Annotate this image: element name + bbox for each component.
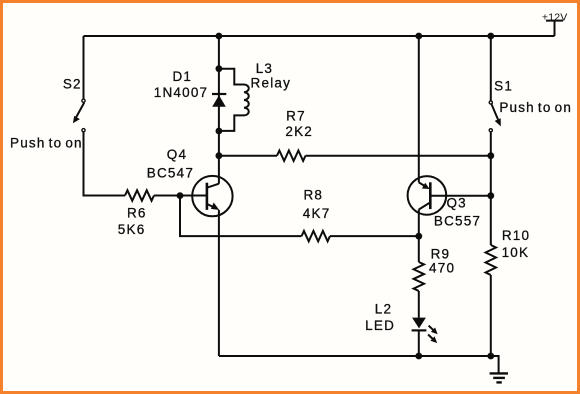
svg-text:L3: L3 xyxy=(256,61,273,76)
svg-text:S2: S2 xyxy=(63,76,82,91)
node: R7 left junction on Q4 collector line xyxy=(216,152,223,159)
wire: S1 lower lead down to R10 xyxy=(490,132,492,245)
wire: R10 bottom lead xyxy=(490,275,492,356)
wire: Q3 collector to R9 node xyxy=(418,210,420,237)
ground xyxy=(490,356,508,382)
wire: R7 right lead to S1 branch xyxy=(306,155,491,157)
resistor R6 xyxy=(125,190,154,200)
svg-text:L2: L2 xyxy=(375,301,392,316)
svg-text:S1: S1 xyxy=(494,79,513,94)
resistor R8 xyxy=(302,231,330,241)
wire: R7 left lead xyxy=(219,155,277,157)
inductor L3 relay coil xyxy=(219,69,249,131)
wire: main vertical from top rail through D1 to Q4 collector xyxy=(218,36,220,184)
wire: R9 top lead xyxy=(418,236,420,262)
svg-text:10K: 10K xyxy=(502,245,530,260)
wire: R6 to Q4 base xyxy=(154,195,206,197)
LED L2 xyxy=(412,318,438,344)
svg-text:4K7: 4K7 xyxy=(303,206,331,221)
wire: S2 lower lead down to R6 row xyxy=(84,132,126,195)
node: R7 / S1 junction xyxy=(487,152,494,159)
wire: bottom rail xyxy=(219,355,491,357)
node: Q3 base / R10 junction xyxy=(487,192,494,199)
svg-text:BC547: BC547 xyxy=(147,166,194,181)
wire: Q3 emitter from top rail xyxy=(418,36,420,182)
svg-text:R9: R9 xyxy=(431,247,451,262)
svg-text:5K6: 5K6 xyxy=(118,222,146,237)
svg-text:1N4007: 1N4007 xyxy=(154,85,209,100)
node: top rail / D1 branch junction xyxy=(216,33,223,40)
wire: base node down and across to R8 xyxy=(180,196,302,237)
wire: R9 to LED xyxy=(418,291,420,318)
node: R10 / ground junction xyxy=(487,353,494,360)
svg-text:Push to on: Push to on xyxy=(499,100,572,115)
node: Q3 collector / R8 / R9 junction xyxy=(415,233,422,240)
wire: S1 upper lead xyxy=(490,36,492,101)
wire: +12V top rail xyxy=(84,35,555,37)
switch S2 xyxy=(73,99,85,132)
svg-text:Push to on: Push to on xyxy=(10,136,83,151)
svg-text:2K2: 2K2 xyxy=(285,124,313,139)
svg-text:D1: D1 xyxy=(172,69,192,84)
svg-text:Relay: Relay xyxy=(251,76,292,91)
node: Q4 base / R8 branch junction xyxy=(177,192,184,199)
wire: S2 upper lead xyxy=(83,36,85,99)
transistor Q3 BC557 xyxy=(408,176,447,215)
node: top rail / Q3 emitter branch junction xyxy=(415,33,422,40)
node: D1/L3 bottom junction xyxy=(216,128,223,135)
power +12V xyxy=(546,21,563,36)
svg-text:LED: LED xyxy=(365,318,395,333)
svg-text:Q3: Q3 xyxy=(446,196,466,211)
wire: LED to bottom rail xyxy=(418,330,420,356)
wire: Q3 base to S1 branch xyxy=(430,195,491,197)
svg-text:R6: R6 xyxy=(127,206,147,221)
svg-text:+12V: +12V xyxy=(542,11,568,23)
wire: Q4 emitter down to bottom rail xyxy=(218,210,220,356)
transistor Q4 BC547 xyxy=(192,176,232,216)
node: D1/L3 top junction xyxy=(216,65,223,72)
diode D1 1N4007 xyxy=(212,94,226,107)
svg-text:470: 470 xyxy=(429,261,455,276)
resistor R7 xyxy=(277,151,306,161)
node: LED / bottom rail junction xyxy=(415,353,422,360)
switch S1 xyxy=(489,101,501,132)
wire: R8 to Q3 collector node xyxy=(330,235,419,237)
svg-text:Q4: Q4 xyxy=(167,147,187,162)
resistor R9 xyxy=(414,262,424,291)
resistor R10 xyxy=(486,245,496,275)
node: top rail / S1 branch junction xyxy=(487,33,494,40)
svg-text:R7: R7 xyxy=(286,108,306,123)
svg-text:R8: R8 xyxy=(303,187,323,202)
svg-text:R10: R10 xyxy=(502,228,530,243)
svg-text:BC557: BC557 xyxy=(434,214,481,229)
